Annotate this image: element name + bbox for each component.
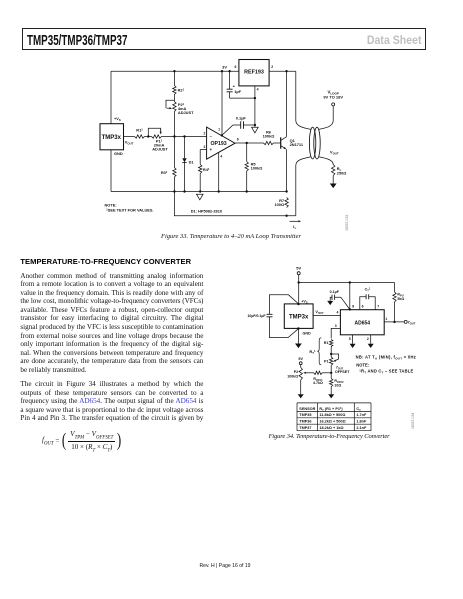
wire 5V to AD654 pin 8 (349, 283, 351, 310)
svg-text:REF193: REF193 (244, 70, 264, 76)
ground at ROFF2 (328, 394, 334, 398)
resistor R3 (173, 137, 175, 168)
potentiometer P2 (173, 95, 175, 102)
svg-text:R1: R1 (324, 341, 329, 345)
resistor RL (332, 165, 335, 176)
junction R3/common (173, 190, 175, 192)
regulator REF193 (239, 60, 269, 86)
svg-text:+: + (210, 147, 213, 152)
capacitor C2 0.1uF (241, 121, 244, 129)
svg-text:4: 4 (220, 155, 222, 159)
paragraph 2 (20, 380, 203, 423)
wire bypass cap left to ground (330, 297, 332, 301)
svg-text:1.7nF: 1.7nF (356, 413, 367, 417)
svg-text:P1: P1 (324, 360, 329, 364)
wire cap top to +Vs (270, 295, 299, 315)
svg-text:8: 8 (352, 305, 354, 309)
svg-text:18.2kΩ + 1kΩ: 18.2kΩ + 1kΩ (319, 426, 343, 430)
ground at bypass cap (327, 301, 333, 305)
wire 3V rail (111, 70, 239, 72)
wire loop top-left (296, 71, 311, 129)
svg-text:R31: R31 (161, 170, 168, 175)
wire ROFF1 to P2 wiper (310, 372, 314, 374)
svg-text:TMP36: TMP36 (299, 420, 311, 424)
potentiometer P1 (152, 135, 162, 138)
svg-text:4: 4 (257, 88, 259, 92)
svg-text:AD654: AD654 (355, 320, 371, 326)
svg-text:OFFSET: OFFSET (335, 370, 350, 374)
wire op-amp pin 4 to common (218, 152, 220, 191)
potentiometer P2 (fig34) (299, 367, 302, 380)
svg-text:VOUT: VOUT (125, 140, 134, 146)
figure 33 caption (131, 233, 331, 240)
junction D1/common (183, 190, 185, 192)
svg-text:D1: D1 (189, 160, 195, 165)
sensor TMP3x (fig34) (284, 304, 313, 329)
figure 34 caption (229, 433, 429, 440)
svg-text:2.1nF: 2.1nF (356, 426, 367, 430)
wire loop bottom-right (319, 157, 334, 165)
wire op-amp output (235, 142, 264, 144)
wire REF193 pin 2 to loop (269, 70, 296, 72)
junction bypass/REF gnd (254, 124, 256, 126)
svg-text:GND: GND (114, 151, 123, 156)
svg-text:GND: GND (303, 332, 312, 336)
junction R5/common (246, 190, 248, 192)
terminal fout (404, 320, 407, 323)
wire pin4 node down to bypass node (254, 98, 256, 125)
sensor TMP3x (100, 124, 124, 150)
wire Vout to AD654 pin 4 (313, 314, 340, 316)
wire R1 to P1 (fig34) (330, 347, 332, 357)
wire AD654 pin 5 to ground (352, 335, 354, 344)
ground at REF193/bypass (254, 125, 256, 127)
wire Q1 emitter to common rail (286, 149, 288, 191)
Figure 34 schematic (240, 255, 463, 445)
junction output/R5 (246, 142, 248, 144)
svg-text:R11: R11 (136, 127, 143, 132)
svg-text:4.7kΩ: 4.7kΩ (313, 381, 323, 385)
svg-text:100kΩ: 100kΩ (251, 166, 263, 171)
ground at RL (330, 184, 337, 189)
svg-text:7: 7 (377, 305, 379, 309)
junction R7/loop return (285, 215, 287, 217)
junction Rpu/fout (393, 321, 395, 323)
brace RT (317, 338, 321, 365)
wire loop top-right to Vloop (319, 106, 334, 129)
ground at AD654 pin 2 (368, 344, 374, 348)
diode D1 (184, 137, 186, 159)
wire common rail (111, 150, 287, 192)
resistor R4 (199, 150, 201, 165)
svg-text:250Ω: 250Ω (337, 170, 347, 175)
junction signal/D1 (183, 135, 185, 137)
svg-text:3: 3 (204, 145, 206, 149)
svg-text:SENSOR: SENSOR (299, 407, 315, 411)
svg-text:RT1: RT1 (309, 349, 316, 355)
svg-text:R41: R41 (203, 167, 210, 172)
table RT and CT values (297, 403, 371, 431)
svg-text:RT (R1 + P11): RT (R1 + P11) (319, 406, 343, 412)
svg-text:2: 2 (367, 337, 369, 341)
resistor ROFF2 (330, 373, 332, 379)
svg-text:ADJUST: ADJUST (178, 110, 194, 115)
paragraph 1 (20, 272, 203, 375)
wire R1 to P1 (145, 136, 152, 138)
svg-text:1: 1 (385, 317, 387, 321)
resistor R2 (173, 71, 175, 85)
figure 34 code (411, 412, 415, 428)
junction op-amp pin 7 (221, 134, 223, 136)
capacitor CT (360, 297, 366, 310)
wire cap to REF193 gnd node (244, 124, 255, 126)
junction on 3V rail at R2 (173, 70, 175, 72)
svg-text:NOTE:: NOTE: (356, 363, 369, 368)
wire pin 7 to bypass cap (222, 125, 241, 135)
junction pin 8 (349, 308, 351, 310)
svg-text:P2: P2 (294, 370, 298, 374)
svg-text:2N1711: 2N1711 (290, 142, 304, 147)
wire bypass cap to pin 8 (335, 297, 350, 309)
wire TMP3x Vout to R1 (124, 136, 135, 138)
svg-text:10Ω: 10Ω (334, 384, 341, 388)
wire P1 to offset node (330, 365, 332, 373)
junction offset node (330, 372, 332, 374)
resistor ROFF1 (314, 371, 323, 374)
svg-text:5kΩ: 5kΩ (397, 297, 404, 301)
svg-text:100kΩ: 100kΩ (263, 133, 275, 138)
wire 5V to TMP3x +Vs (298, 283, 300, 304)
resistor R5 (246, 143, 248, 162)
junction signal/R3 chain (173, 135, 175, 137)
resistor R1 (fig34) (330, 339, 333, 346)
wire R6 to Q1 base (274, 142, 281, 144)
wire op-amp pin 3 (200, 149, 206, 151)
svg-text:1SEE TEXT FOR VALUES.: 1SEE TEXT FOR VALUES. (106, 207, 153, 212)
converter AD654 (340, 310, 384, 335)
svg-text:VOUT: VOUT (315, 310, 324, 315)
wire C1 to pin 4 node (230, 97, 255, 99)
svg-text:9V TO 18V: 9V TO 18V (323, 95, 343, 100)
op-amp U1 OP193 (207, 127, 235, 159)
wire 5V rail (299, 282, 395, 284)
wire AD654 pin 2 to ground (370, 335, 372, 344)
ground at P2 (298, 394, 304, 398)
svg-text:4: 4 (337, 311, 339, 315)
junction pin4/common (218, 190, 220, 192)
figure 33 code (345, 214, 349, 230)
header rule box (22, 28, 426, 50)
svg-text:1RT AND CT – SEE TABLE: 1RT AND CT – SEE TABLE (359, 368, 413, 374)
twisted-pair loop right coil (314, 127, 320, 159)
wire TMP3x GND to ground (297, 328, 299, 343)
svg-text:0.1µF: 0.1µF (236, 116, 247, 121)
junction Q1 emitter/common (285, 190, 287, 192)
twisted-pair loop left coil (309, 127, 315, 159)
svg-text:+VS: +VS (114, 116, 121, 122)
wire offset node to ROFF1 (322, 372, 331, 374)
footer (0, 563, 450, 569)
ground at AD654 pin 5 (350, 344, 356, 348)
svg-text:5: 5 (349, 337, 351, 341)
svg-text:6: 6 (235, 65, 237, 69)
wire cap bottom to GND pin (270, 317, 299, 338)
Figure 33 schematic (85, 55, 360, 247)
svg-text:NB: AT TA (MIN), fOUT = 0Hz: NB: AT TA (MIN), fOUT = 0Hz (356, 354, 416, 360)
svg-text:0.1µF: 0.1µF (330, 290, 340, 294)
wiper arrow of P2 (306, 372, 310, 374)
junction on 3V rail at C1 (228, 70, 230, 72)
junction 5V/pin8 (349, 281, 351, 283)
svg-text:1.8nF: 1.8nF (356, 420, 367, 424)
transistor Q1 2N1711 (280, 137, 282, 148)
svg-text:6: 6 (362, 305, 364, 309)
svg-text:OUT: OUT (410, 321, 416, 325)
svg-text:10µF/0.1µF: 10µF/0.1µF (247, 314, 266, 318)
wire P2 to signal node (173, 112, 175, 137)
resistor RPU (394, 283, 396, 293)
svg-text:OP193: OP193 (211, 141, 227, 147)
svg-text:2: 2 (204, 132, 206, 136)
wire loop bottom-left (296, 157, 311, 216)
svg-text:CT1: CT1 (365, 288, 371, 293)
svg-text:6: 6 (237, 138, 239, 142)
wire loop return (174, 192, 295, 216)
terminal Vloop (332, 103, 335, 106)
svg-text:TMP3x: TMP3x (102, 135, 122, 141)
svg-text:VOUT: VOUT (330, 150, 339, 156)
junction R4/common (199, 190, 201, 192)
svg-text:16.2kΩ + 500Ω: 16.2kΩ + 500Ω (319, 420, 345, 424)
resistor R7 (285, 198, 288, 208)
wire AD654 pin 1 to fout (384, 321, 404, 323)
resistor R6 (264, 141, 274, 144)
wire P2 to ground (300, 380, 302, 394)
svg-text:TMP35: TMP35 (299, 413, 311, 417)
svg-text:D1: HP5082-2810: D1: HP5082-2810 (191, 209, 222, 214)
svg-text:5V: 5V (296, 266, 301, 271)
junction collector/loop wire (285, 70, 287, 72)
junction on 3V rail at op-amp supply (221, 70, 223, 72)
junction at P1 left (147, 135, 149, 137)
wire REF193 pin 4 (254, 86, 256, 98)
svg-text:−: − (210, 134, 213, 139)
wire Q1 collector to loop+ (286, 71, 288, 137)
ground symbol of common (197, 194, 204, 200)
svg-text:5V: 5V (298, 357, 303, 361)
svg-text:100Ω: 100Ω (274, 202, 284, 207)
svg-text:TMP37: TMP37 (299, 426, 311, 430)
svg-text:7: 7 (218, 128, 220, 132)
svg-text:100kΩ: 100kΩ (287, 375, 298, 379)
heading (20, 257, 191, 266)
svg-text:3V: 3V (222, 65, 227, 70)
junction pin4/C1 (254, 97, 256, 99)
svg-text:11.8kΩ + 500Ω: 11.8kΩ + 500Ω (319, 413, 345, 417)
svg-text:2: 2 (271, 65, 273, 69)
wire 3V rail to TMP3x +Vs (110, 71, 112, 124)
svg-text:+: + (233, 83, 236, 88)
svg-text:R21: R21 (178, 87, 185, 92)
svg-text:+VS: +VS (301, 299, 308, 304)
current arrow I_L (290, 220, 299, 222)
capacitor C1 1uF (229, 71, 231, 89)
wire AD654 pin 3 (331, 328, 340, 338)
svg-text:CT: CT (356, 407, 361, 412)
wire P1 to op-amp pin 2 (162, 136, 207, 138)
svg-text:TMP3x: TMP3x (289, 315, 309, 321)
resistor R1 (135, 135, 145, 138)
junction 5V/TMP3x (298, 281, 300, 283)
wire 3V to op-amp pin 7 (221, 71, 223, 135)
svg-text:3: 3 (335, 324, 337, 328)
svg-text:ADJUST: ADJUST (152, 147, 168, 152)
equation (42, 430, 123, 453)
potentiometer P1 (fig34) (330, 357, 333, 365)
svg-text:L: L (295, 226, 297, 230)
ground at TMP3x (fig34) (295, 344, 302, 349)
svg-text:1µF: 1µF (234, 89, 241, 94)
